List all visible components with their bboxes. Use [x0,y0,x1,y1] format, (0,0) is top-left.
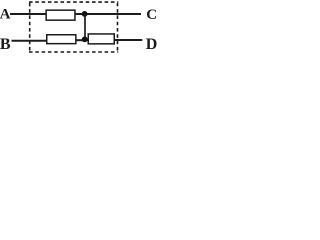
wire R1 to C [75,13,141,15]
wire vertical junction link [84,14,86,39]
svg-text:B: B [0,36,11,53]
wire R3 to D [114,39,142,41]
background [0,0,157,56]
wire B to R2 [12,40,47,42]
node junction bottom [82,36,88,42]
wire A to R1 [10,13,47,15]
dashed network box : top edge [29,1,118,3]
dashed network box : right edge [117,3,119,53]
resistor R3 [88,34,114,44]
svg-text:A: A [0,7,11,23]
svg-text:D: D [146,36,157,53]
svg-text:C: C [146,7,157,23]
node junction top [82,11,88,17]
dashed network box : left edge [29,3,31,53]
resistor R1 [46,10,75,20]
resistor R2 [47,35,76,44]
wire R2 to junction and R3 [76,39,89,41]
dashed network box : bottom edge [29,51,118,53]
